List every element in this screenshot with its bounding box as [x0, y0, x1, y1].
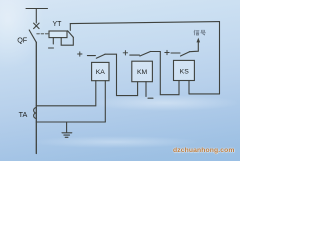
CT TA winding	[34, 108, 37, 119]
svg-text:KA: KA	[96, 69, 106, 76]
wire to KS right pin	[189, 93, 220, 95]
contact KA blade	[96, 54, 105, 58]
svg-text:TA: TA	[19, 110, 28, 119]
breaker QF blade	[29, 30, 36, 42]
svg-text:YT: YT	[53, 21, 63, 28]
ground	[62, 122, 72, 137]
wire YT right pin loop	[61, 37, 73, 45]
wire aux contact fixed lead	[69, 24, 71, 31]
contact KA fixed lead	[87, 55, 95, 57]
contact KM fixed lead	[130, 54, 140, 56]
KM right pin	[145, 82, 147, 97]
arrow head signal	[197, 38, 201, 43]
svg-text:KM: KM	[137, 69, 148, 76]
svg-text:KS: KS	[180, 69, 190, 76]
wire contact2 to KS coil	[150, 52, 179, 95]
KS right pin	[188, 81, 190, 94]
wire to signal arrow	[190, 42, 199, 52]
wire feeder main vertical	[35, 42, 37, 153]
breaker QF X symbol	[34, 23, 40, 29]
busbar	[26, 8, 48, 10]
mechanical link dashed	[37, 33, 49, 35]
wire busbar drop	[35, 9, 37, 24]
wire KA left pin to TA	[36, 81, 96, 106]
QF aux contact blade	[68, 31, 74, 38]
signal relay KS box	[174, 60, 195, 80]
trip coil YT box	[49, 31, 67, 38]
YT pin left	[52, 38, 54, 44]
plus terminal 2	[123, 51, 127, 55]
wire bottom bus	[36, 121, 105, 123]
wire KA right pin down	[104, 81, 106, 122]
wire right drop	[219, 22, 221, 94]
plus terminal 1	[78, 52, 82, 56]
wire contact1 to KM coil	[105, 54, 138, 95]
contact KM blade	[140, 52, 151, 57]
svg-text:QF: QF	[17, 36, 28, 45]
minus terminal YT	[49, 47, 54, 49]
wire top rail	[70, 22, 219, 24]
relay KA box	[92, 62, 109, 80]
contact KS blade	[181, 52, 190, 56]
contactor KM box	[132, 61, 153, 81]
label xin hao (signal) glyphs	[194, 30, 205, 35]
watermark	[173, 147, 235, 154]
contact KS fixed lead	[171, 52, 180, 54]
plus terminal 3	[165, 50, 169, 54]
minus terminal KM	[148, 97, 153, 99]
